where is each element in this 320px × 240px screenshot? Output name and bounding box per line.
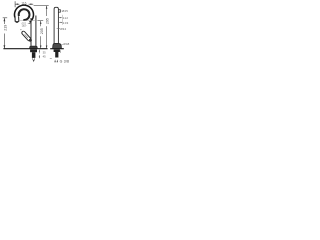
svg-text:G 3/8: G 3/8: [60, 60, 70, 64]
svg-text:45: 45: [43, 54, 46, 58]
lever seam line: [25, 34, 28, 38]
svg-text:Ø48: Ø48: [63, 42, 69, 46]
side dim Ø34 tick: [57, 28, 60, 30]
swivel arc tick: [20, 29, 21, 30]
countertop line side view: [50, 48, 64, 50]
svg-text:Ø34: Ø34: [60, 27, 66, 31]
small arrow to column: [28, 22, 31, 24]
top width dimension line 116: [15, 1, 33, 7]
spout loop outer arc: [14, 5, 33, 22]
side view lever nub: [59, 10, 61, 13]
svg-text:35: 35: [43, 51, 46, 55]
side shank nut: [54, 49, 60, 52]
spout outlet tube: [15, 17, 19, 24]
lever joint on column: [29, 39, 32, 42]
svg-text:295: 295: [46, 18, 50, 24]
body base flange: [30, 46, 38, 48]
front shank nut: [30, 49, 37, 52]
svg-text:150°: 150°: [22, 25, 27, 28]
top dimension arrowheads: [15, 3, 33, 5]
body column: [31, 16, 36, 47]
svg-text:205: 205: [40, 28, 44, 34]
svg-text:103: 103: [63, 21, 69, 25]
bottom left small mark: [50, 58, 52, 60]
side dim arrows 103: [59, 21, 62, 23]
total height dimension 295: [34, 6, 49, 49]
spout loop inner arc: [19, 9, 30, 20]
side label Ø25 leader: [59, 10, 62, 12]
front shank threaded rod: [32, 52, 36, 58]
svg-text:219: 219: [4, 25, 8, 31]
outlet extension line: [20, 20, 38, 22]
side view base flange: [53, 43, 62, 48]
side shank tick: [60, 50, 62, 53]
side view body outline: [54, 7, 58, 43]
lever handle capsule: [23, 33, 29, 39]
left height dimension 219: [3, 18, 8, 49]
side shank threaded rod: [55, 52, 58, 58]
outlet height dimension 205: [38, 21, 44, 49]
side dim arrows 112: [59, 17, 62, 19]
front shank lower arrow: [33, 60, 35, 63]
svg-text:112: 112: [63, 16, 69, 20]
svg-text:Ø25: Ø25: [62, 9, 68, 13]
countertop line front view: [3, 48, 47, 50]
bottom small arrows: [54, 59, 55, 62]
shank side dimension ticks: [38, 50, 40, 59]
front shank hose lines: [32, 58, 34, 60]
side label Ø48 leader: [62, 43, 64, 45]
